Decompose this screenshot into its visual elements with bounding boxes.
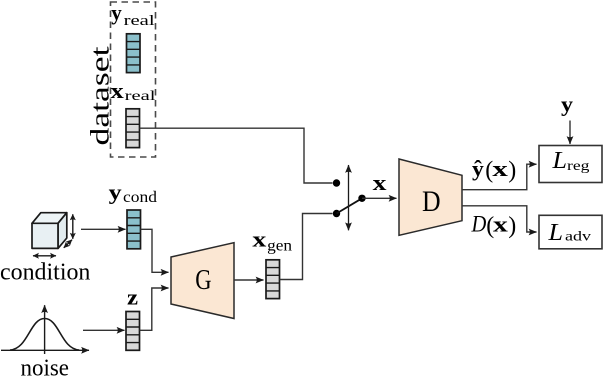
svg-text:x: x [493, 211, 508, 236]
cube width double arrow [33, 255, 56, 257]
dataset dashed box [111, 2, 156, 157]
svg-text:D: D [422, 185, 441, 218]
condition cube [32, 213, 67, 249]
wire D to L_reg [462, 164, 537, 190]
cube depth double arrow [64, 240, 72, 248]
switch toggle double arrow [348, 165, 350, 230]
wire y_cond to G [141, 229, 169, 272]
svg-text:): ) [508, 158, 516, 184]
wire x_gen to switch [280, 214, 333, 280]
switch terminal dot bottom [333, 210, 340, 217]
svg-text:reg: reg [567, 158, 590, 173]
vector y_real [127, 34, 141, 73]
svg-text:x: x [373, 170, 387, 195]
box L_adv [539, 215, 602, 249]
wire D to L_adv [462, 206, 537, 232]
svg-text:x: x [492, 156, 507, 181]
vector x_real [126, 109, 140, 148]
box L_reg [539, 146, 602, 183]
svg-text:z: z [127, 284, 138, 309]
switch wiper wire [337, 198, 363, 213]
switch wiper dot [358, 195, 365, 202]
arrow y to L_reg [569, 121, 571, 145]
svg-text:L: L [551, 148, 567, 174]
svg-text:y: y [561, 92, 573, 117]
wire G to x_gen [234, 279, 264, 281]
svg-text:): ) [508, 213, 516, 239]
svg-text:x: x [252, 226, 266, 251]
arrow condition to y_cond [81, 228, 126, 230]
vector z [126, 312, 140, 351]
svg-text:D: D [471, 211, 487, 236]
svg-text:y: y [111, 0, 122, 25]
svg-text:y: y [109, 179, 122, 204]
arrow noise to z [83, 329, 125, 331]
svg-text:ŷ: ŷ [472, 156, 484, 181]
discriminator D [399, 159, 462, 235]
vector y_cond [127, 210, 141, 249]
svg-text:real: real [125, 89, 156, 104]
svg-text:condition: condition [0, 259, 90, 285]
svg-text:real: real [124, 13, 155, 29]
svg-text:gen: gen [267, 237, 292, 254]
switch terminal dot top [333, 179, 340, 186]
svg-text:x: x [111, 78, 124, 103]
wire z to G [140, 288, 169, 330]
svg-text:L: L [547, 220, 563, 246]
noise gaussian plot [1, 305, 89, 354]
cube height double arrow [72, 214, 74, 239]
svg-text:G: G [195, 265, 211, 296]
svg-text:adv: adv [565, 229, 591, 244]
svg-text:cond: cond [123, 189, 157, 206]
vector x_gen [266, 260, 280, 299]
generator G [171, 243, 234, 319]
wire switch to D [362, 197, 397, 199]
svg-text:noise: noise [21, 356, 70, 376]
wire x_real to switch [140, 128, 333, 183]
